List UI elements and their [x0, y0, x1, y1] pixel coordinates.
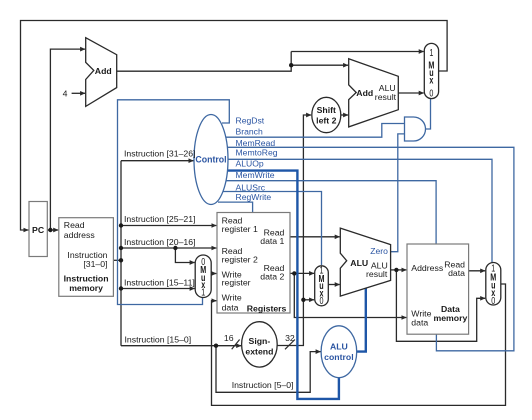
wire sign-extend output up to shift left 2: [277, 115, 311, 346]
svg-text:0: 0: [429, 87, 433, 98]
svg-text:memory: memory: [433, 313, 467, 323]
wire Instruction 25-21 to Read register 1: [121, 225, 216, 227]
svg-text:extend: extend: [245, 347, 273, 357]
wire shift left 2 output to branch adder: [341, 114, 348, 116]
ALU: [340, 228, 390, 296]
wire instruction bus from instruction memory: [113, 259, 121, 261]
instruction memory: [59, 218, 114, 297]
svg-text:Instruction [31–26]: Instruction [31–26]: [124, 148, 195, 158]
svg-text:address: address: [64, 230, 96, 240]
mux ALUSrc: [315, 264, 329, 306]
svg-text:result: result: [366, 269, 388, 279]
svg-text:MemtoReg: MemtoReg: [236, 148, 278, 158]
PC register: [29, 202, 47, 257]
junction instruction 15-11: [119, 286, 123, 290]
AND gate for branch: [405, 117, 426, 141]
wire AND gate output to top mux select: [426, 99, 431, 129]
junction 20-16 branch: [173, 246, 177, 250]
wire RegWrite control signal to registers top: [218, 202, 253, 212]
svg-text:data: data: [411, 317, 428, 327]
svg-text:[31–0]: [31–0]: [83, 259, 107, 269]
wire Branch control signal to AND gate: [224, 124, 405, 138]
wire ALUSrc control signal to ALUSrc mux select: [222, 192, 322, 266]
wire ALU result bypass to MemtoReg mux input 0: [396, 270, 485, 341]
wire MemtoReg control signal to right mux select: [227, 159, 492, 262]
svg-text:register 1: register 1: [222, 224, 258, 234]
svg-text:Branch: Branch: [236, 126, 263, 136]
shift left 2 oval: [312, 97, 341, 132]
32-bit slash: [285, 340, 295, 350]
wire PC+4 to top mux input 1: [291, 51, 424, 53]
wire sign-extend branch to ALUSrc mux input 0: [303, 299, 314, 301]
16-bit slash: [232, 340, 240, 350]
svg-text:RegDst: RegDst: [236, 116, 265, 126]
wire Instruction 20-16 to Read register 2: [121, 247, 216, 249]
wire Read data 2 branch to data memory Write data: [294, 273, 406, 317]
wire MemRead control signal to data memory bottom: [226, 147, 514, 350]
adder Add ALU result (branch target): [349, 59, 399, 127]
wire Read data 2 to ALUSrc mux input 1: [290, 272, 314, 274]
svg-text:memory: memory: [69, 283, 103, 293]
wire Instruction 15-11 to RegDst mux input 1: [121, 288, 195, 290]
wire MemWrite control signal to data memory top: [225, 181, 436, 244]
junction PC output: [48, 228, 52, 232]
wire branch adder output to top mux input 0: [398, 92, 423, 94]
svg-text:data 2: data 2: [260, 271, 284, 281]
svg-text:Control: Control: [195, 155, 226, 165]
wire write-back from MemtoReg mux to registers Write data: [212, 284, 506, 405]
wire Add output PC+4 to junction: [117, 52, 292, 72]
wire PC output to instruction memory Read address: [47, 229, 58, 231]
wire Read data 1 to ALU: [290, 236, 340, 238]
sign-extend oval: [242, 322, 278, 367]
svg-text:32: 32: [285, 333, 295, 343]
junction instruction 15-0: [214, 344, 218, 348]
svg-text:1: 1: [429, 47, 433, 58]
svg-text:Instruction [25–21]: Instruction [25–21]: [124, 214, 195, 224]
wire Instruction 20-16 branch to RegDst mux input 0: [175, 248, 194, 263]
svg-text:register: register: [222, 278, 251, 288]
svg-text:1: 1: [201, 286, 205, 297]
svg-text:Instruction [20–16]: Instruction [20–16]: [124, 237, 195, 247]
svg-text:Instruction [15–11]: Instruction [15–11]: [124, 277, 195, 287]
wire ALU control output to ALU: [357, 288, 366, 352]
svg-text:result: result: [375, 92, 397, 102]
junction read data 2: [292, 271, 296, 275]
svg-text:Add: Add: [356, 88, 373, 98]
wire ALUOp control signal to ALU control: [224, 171, 339, 399]
junction instruction 20-16: [119, 246, 123, 250]
svg-text:MemWrite: MemWrite: [236, 170, 275, 180]
junction sign-extend output: [301, 298, 305, 302]
svg-text:Zero: Zero: [370, 246, 388, 256]
adder Add (PC+4): [86, 38, 117, 107]
data memory: [407, 244, 469, 334]
svg-text:16: 16: [224, 333, 234, 343]
mux PCSrc top right: [424, 43, 438, 98]
svg-text:Shift: Shift: [317, 105, 336, 115]
junction ALU result: [394, 268, 398, 272]
svg-text:PC: PC: [32, 225, 45, 235]
svg-text:control: control: [324, 352, 353, 362]
registers: [217, 213, 290, 314]
svg-text:Address: Address: [411, 263, 444, 273]
wire Instruction 5-0 to ALU control: [216, 346, 321, 393]
svg-text:left 2: left 2: [316, 116, 336, 126]
wire RegDst control signal to RegDst mux select: [118, 100, 230, 305]
wire PC+4 to second adder top input: [291, 64, 348, 66]
svg-text:Instruction [15–0]: Instruction [15–0]: [125, 334, 192, 344]
svg-text:x: x: [429, 74, 433, 85]
wire PC-feedback from top mux output across top and down left into PC: [21, 21, 448, 231]
wire ALUSrc mux output to ALU: [328, 284, 339, 286]
junction instruction bus: [119, 258, 123, 262]
svg-text:Read: Read: [64, 220, 85, 230]
svg-text:register 2: register 2: [222, 255, 258, 265]
svg-text:Instruction: Instruction: [64, 273, 109, 283]
wire instruction bus riser: [120, 161, 122, 346]
svg-text:4: 4: [63, 89, 68, 99]
svg-text:0: 0: [319, 295, 323, 306]
svg-text:Sign-: Sign-: [249, 336, 271, 346]
ALU control oval: [321, 326, 357, 378]
svg-text:Write: Write: [222, 292, 242, 302]
svg-text:ALU: ALU: [330, 342, 348, 352]
wire PC output riser up to Add: [50, 49, 85, 230]
mux RegDst: [195, 255, 211, 298]
mux MemtoReg: [486, 262, 501, 306]
wire constant 4 into Add: [72, 92, 86, 94]
svg-text:Add: Add: [95, 66, 112, 76]
wire Instruction 15-0 to sign-extend: [121, 345, 241, 347]
wire Zero flag from ALU to AND gate: [391, 134, 405, 252]
svg-text:0: 0: [491, 295, 495, 306]
svg-text:Instruction [5–0]: Instruction [5–0]: [232, 380, 294, 390]
junction PC+4: [289, 63, 293, 67]
wire Instruction 31-26 into Control: [121, 160, 194, 162]
wire RegDst mux output to Write register: [211, 273, 216, 275]
svg-text:ALU: ALU: [350, 258, 368, 268]
svg-text:data: data: [448, 268, 465, 278]
control unit oval: [194, 115, 228, 205]
wire ALU result to data memory Address: [391, 269, 407, 271]
svg-text:ALUOp: ALUOp: [236, 159, 264, 169]
svg-text:Registers: Registers: [247, 303, 287, 313]
svg-text:ALUSrc: ALUSrc: [236, 182, 266, 192]
wire data memory Read data to MemtoReg mux input 1: [469, 270, 486, 272]
junction instruction 25-21: [119, 223, 123, 227]
svg-text:data 1: data 1: [260, 236, 284, 246]
svg-text:RegWrite: RegWrite: [236, 192, 272, 202]
svg-text:MemRead: MemRead: [236, 138, 276, 148]
svg-text:data: data: [222, 303, 239, 313]
